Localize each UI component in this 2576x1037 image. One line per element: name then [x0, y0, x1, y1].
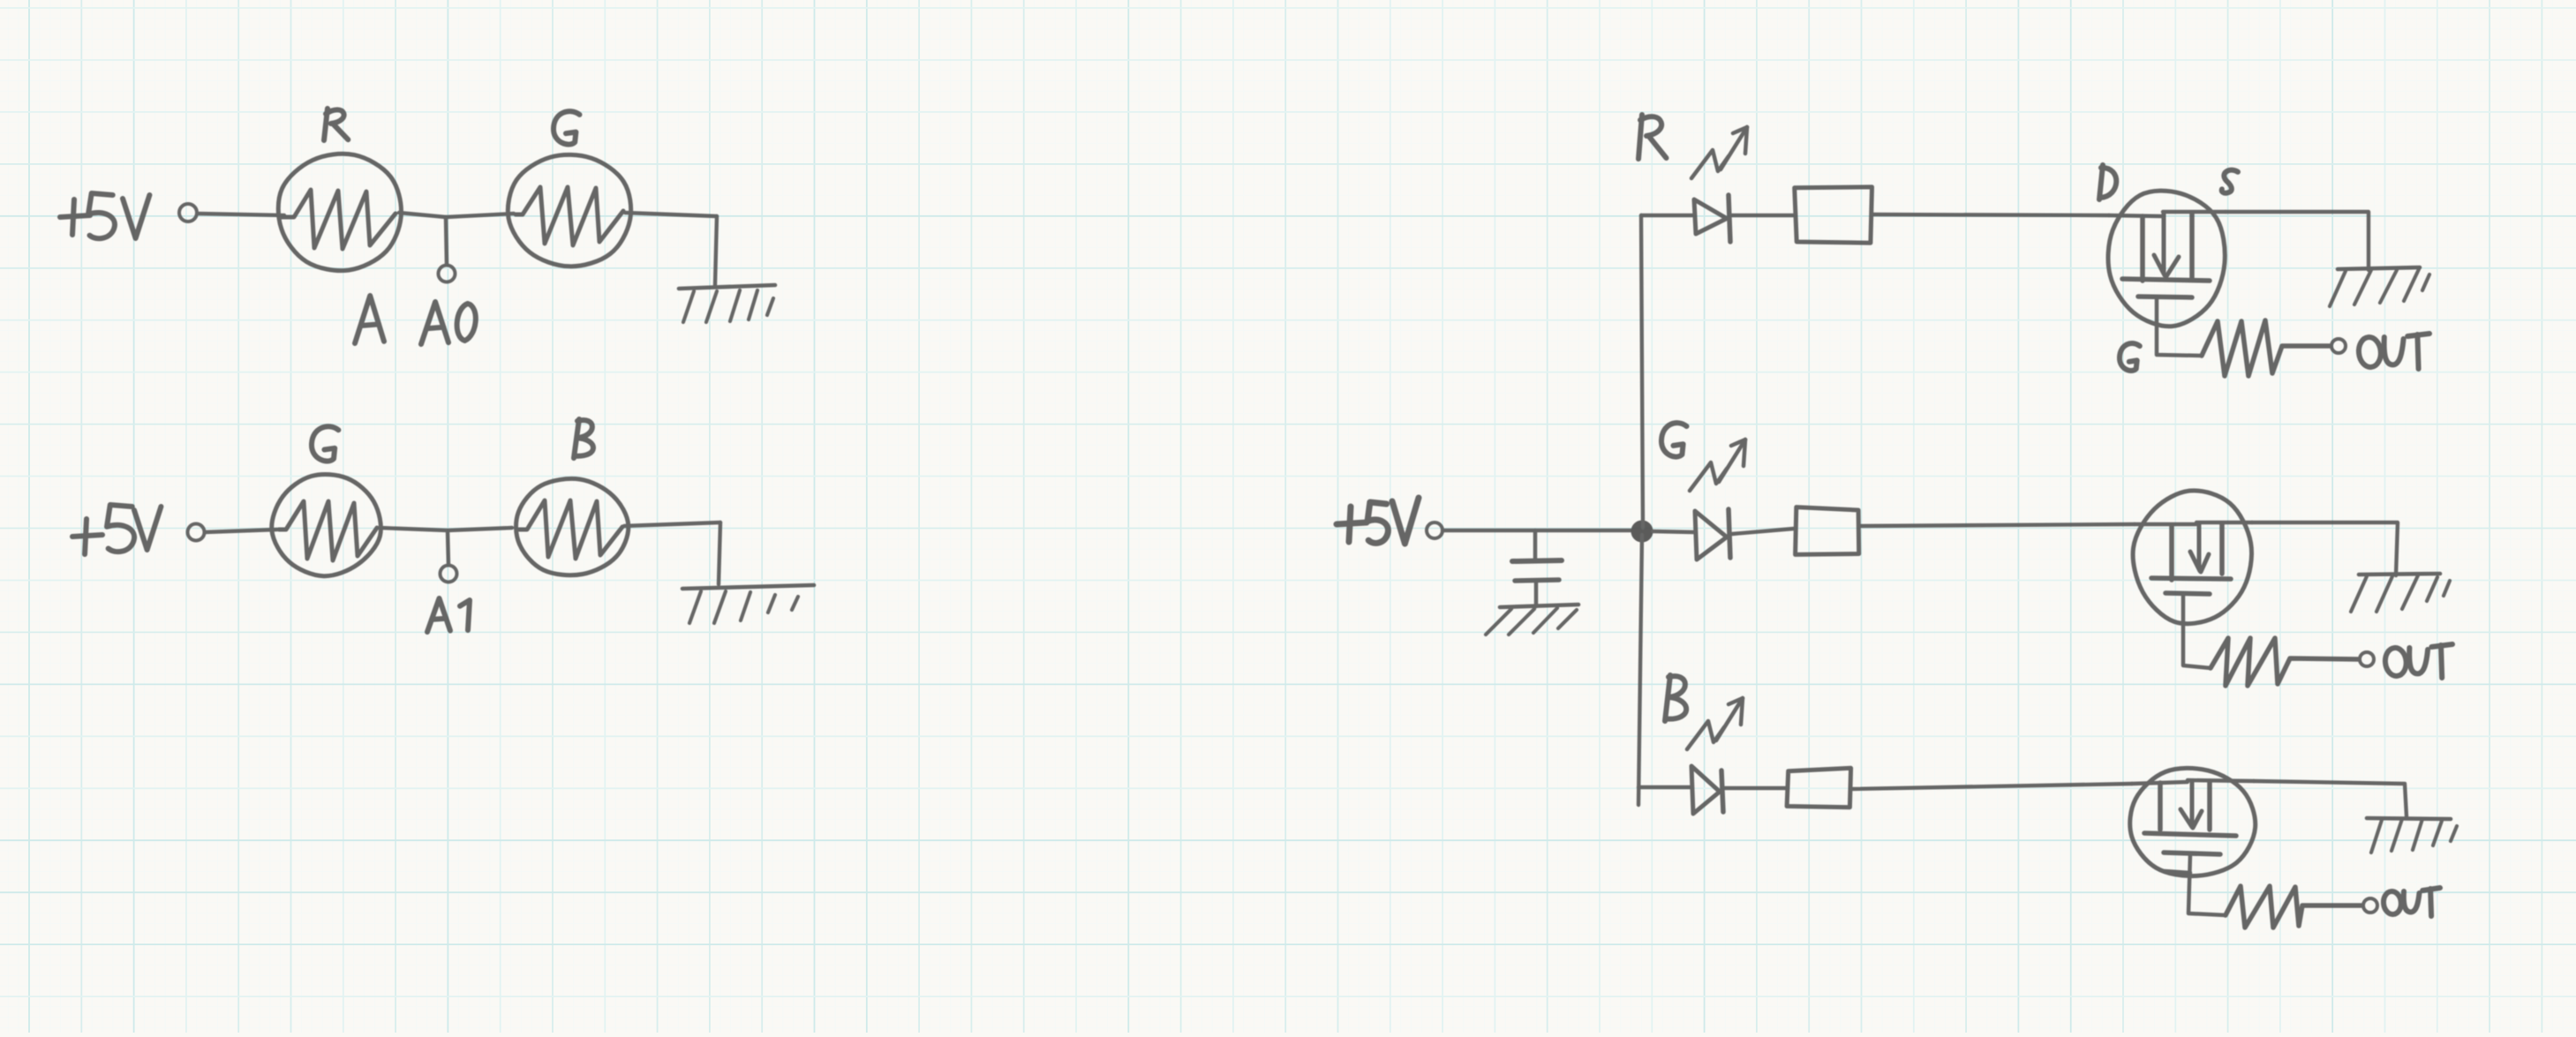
- MOSFET Q1 gate lead: [2157, 298, 2202, 356]
- MOSFET Q1 source bar: [2163, 212, 2226, 278]
- MOSFET Q1 arrow: [2154, 213, 2179, 276]
- wire to ground: [719, 522, 720, 584]
- terminal +5V (divider 2): [188, 524, 205, 541]
- tap wire A1: [448, 530, 448, 565]
- gate resistor zigzag Q3: [2226, 886, 2362, 928]
- MOSFET Q1 body: [2108, 191, 2225, 327]
- photoresistor B (label B): [574, 419, 593, 458]
- MOSFET Q2 gate plate: [2165, 593, 2210, 594]
- ground (capacitor): [1486, 605, 1578, 635]
- wire: [1442, 529, 1633, 532]
- photoresistor G (label G): [554, 111, 580, 144]
- ground (Q2): [2351, 574, 2450, 612]
- MOSFET Q3 drain bar: [2132, 782, 2188, 830]
- capacitor C1 plates: [1512, 560, 1562, 581]
- MOSFET Q2 gate lead: [2183, 595, 2211, 668]
- terminal +5V (RGB driver): [1427, 522, 1442, 538]
- MOSFET Q3 gate plate: [2164, 853, 2220, 854]
- MOSFET Q3 source bar: [2188, 780, 2254, 830]
- label +5V (divider 1): [60, 193, 149, 238]
- LED G: [1695, 509, 1730, 560]
- MOSFET Q3 gate tick: [2165, 871, 2190, 873]
- LED R light arrows: [1691, 127, 1747, 178]
- wire node A1: [380, 528, 512, 530]
- ground (Q3): [2367, 818, 2457, 853]
- wire: [1850, 784, 2132, 789]
- wire: [1872, 214, 2109, 215]
- junction node +5V bus: [1632, 522, 1652, 541]
- ground (divider 1): [679, 285, 775, 322]
- MOSFET Q3 body: [2130, 768, 2256, 875]
- wire source to ground: [2254, 781, 2407, 816]
- wire to ground: [715, 216, 717, 285]
- wire: [624, 522, 720, 526]
- wire: [1732, 529, 1794, 534]
- wire: [198, 214, 284, 215]
- label G (gate Q1): [2120, 343, 2140, 371]
- terminal A1: [441, 566, 457, 582]
- ground (Q1): [2330, 267, 2429, 306]
- wire source to ground: [2252, 522, 2398, 575]
- gate resistor zigzag Q2: [2211, 638, 2359, 686]
- wire: [1641, 214, 1692, 217]
- MOSFET Q3 gate lead: [2188, 854, 2226, 915]
- LED G light arrows: [1690, 440, 1745, 491]
- gate resistor zigzag Q1: [2202, 320, 2331, 376]
- label OUT2: [2384, 644, 2452, 678]
- label A1: [427, 598, 470, 632]
- label B (LED B): [1665, 675, 1686, 721]
- MOSFET Q1 gate plate: [2138, 297, 2192, 297]
- wire: [625, 213, 717, 216]
- label OUT3: [2383, 888, 2440, 916]
- MOSFET Q3 arrow: [2181, 782, 2202, 828]
- terminal OUT3: [2363, 898, 2377, 913]
- wire bus down: [1638, 535, 1642, 805]
- label R (LED R): [1638, 115, 1667, 159]
- resistor box G: [1796, 507, 1859, 555]
- photoresistor G body: [508, 154, 630, 266]
- MOSFET Q2 arrow: [2190, 524, 2209, 572]
- MOSFET Q2 channel: [2151, 578, 2231, 579]
- photoresistor G2 (label G): [312, 426, 338, 461]
- label OUT1: [2357, 334, 2429, 369]
- label A: [355, 296, 384, 343]
- terminal A0: [439, 266, 456, 282]
- wire bus up: [1641, 215, 1643, 528]
- wire: [1725, 786, 1786, 790]
- MOSFET Q2 source bar: [2196, 522, 2252, 574]
- wire source to ground: [2226, 212, 2369, 270]
- MOSFET Q1 channel: [2122, 279, 2210, 281]
- MOSFET Q3 channel: [2144, 833, 2236, 836]
- label +5V (RGB driver): [1337, 498, 1419, 544]
- resistor box B: [1787, 768, 1851, 807]
- MOSFET Q2 body: [2133, 491, 2251, 624]
- label G (LED G): [1661, 423, 1687, 456]
- LED B light arrows: [1687, 698, 1743, 749]
- resistor box R: [1795, 187, 1872, 243]
- wire node A0: [399, 213, 514, 217]
- terminal OUT2: [2360, 652, 2374, 666]
- wire: [205, 530, 277, 532]
- capacitor C1 lead2: [1534, 581, 1539, 606]
- wire: [1653, 531, 1693, 532]
- terminal +5V (divider 1): [179, 204, 197, 222]
- wire: [1638, 785, 1691, 789]
- LED B: [1691, 766, 1723, 814]
- photoresistor R body: [278, 154, 401, 270]
- MOSFET Q1 drain bar: [2109, 215, 2163, 281]
- photoresistor R (label R): [324, 109, 348, 140]
- terminal OUT1: [2331, 339, 2346, 353]
- photoresistor B body: [516, 478, 629, 575]
- tap wire A0: [446, 217, 447, 265]
- ground (divider 2): [682, 585, 814, 623]
- label +5V (divider 2): [72, 505, 161, 554]
- capacitor C1 lead: [1533, 530, 1538, 559]
- label S: [2222, 170, 2238, 193]
- MOSFET Q2 drain bar: [2135, 524, 2196, 580]
- label D: [2099, 165, 2116, 199]
- photoresistor G2 body: [272, 474, 381, 575]
- label A0: [421, 302, 476, 344]
- wire: [1732, 214, 1795, 217]
- LED R: [1694, 195, 1730, 242]
- wire: [1861, 524, 2135, 526]
